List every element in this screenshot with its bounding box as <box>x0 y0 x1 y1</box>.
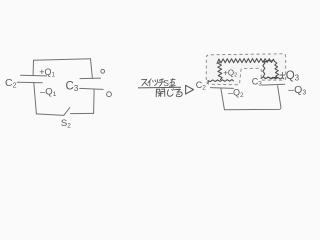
zero charge circle bottom (C3 left circuit) <box>107 92 112 97</box>
capacitor C3 top plate drawn as wavy conductor (right circuit) <box>261 77 284 79</box>
capacitor C3 top plate (left circuit) <box>80 77 101 80</box>
capacitor C2 bottom plate (right circuit) <box>210 87 233 90</box>
capacitor C2 top plate (left circuit) <box>21 74 47 77</box>
wire right lower (left circuit) <box>93 90 96 114</box>
wavy wire top horizontal (right circuit) <box>217 59 274 64</box>
switch S2 blade <box>64 108 70 116</box>
glyph じ <box>167 89 174 96</box>
annotation text: スイッチS2を (hand-drawn strokes) <box>142 79 165 86</box>
wavy wire rising from C2 plate (right circuit) <box>218 62 222 80</box>
glyph る <box>175 89 182 97</box>
capacitor C2 bottom plate (left circuit) <box>17 81 42 83</box>
dashed boundary of isolated conductor (right circuit) <box>206 54 285 85</box>
annotation text: 閉じる (hand-drawn strokes) <box>156 89 182 97</box>
capacitor C3 bottom plate (right circuit) <box>262 83 285 86</box>
wire bottom (right circuit) <box>224 86 281 110</box>
wire left lower (right circuit) <box>221 89 225 110</box>
wire bottom right (left circuit) <box>71 112 94 114</box>
wire left lower (left circuit) <box>34 83 37 114</box>
capacitor C3 bottom plate (left circuit) <box>80 88 104 89</box>
wire left upper (left circuit) <box>32 60 34 75</box>
glyph チ <box>159 79 165 86</box>
zero charge circle top (C3 left circuit) <box>101 69 105 73</box>
arrow annotation line <box>138 86 181 89</box>
glyph を <box>171 79 176 86</box>
glyph 閉 <box>156 89 165 97</box>
glyph ッ <box>153 80 158 86</box>
glyph ス <box>142 79 148 85</box>
glyph イ <box>148 79 151 86</box>
capacitor C2 top plate drawn as wavy conductor (right circuit) <box>208 80 233 83</box>
wire top (left circuit) <box>34 59 91 60</box>
arrowhead (open triangle) <box>186 85 194 94</box>
wavy wire descending loop (right circuit) <box>263 60 279 79</box>
wire right upper (left circuit) <box>91 59 93 78</box>
wire bottom left (left circuit) <box>36 114 63 116</box>
